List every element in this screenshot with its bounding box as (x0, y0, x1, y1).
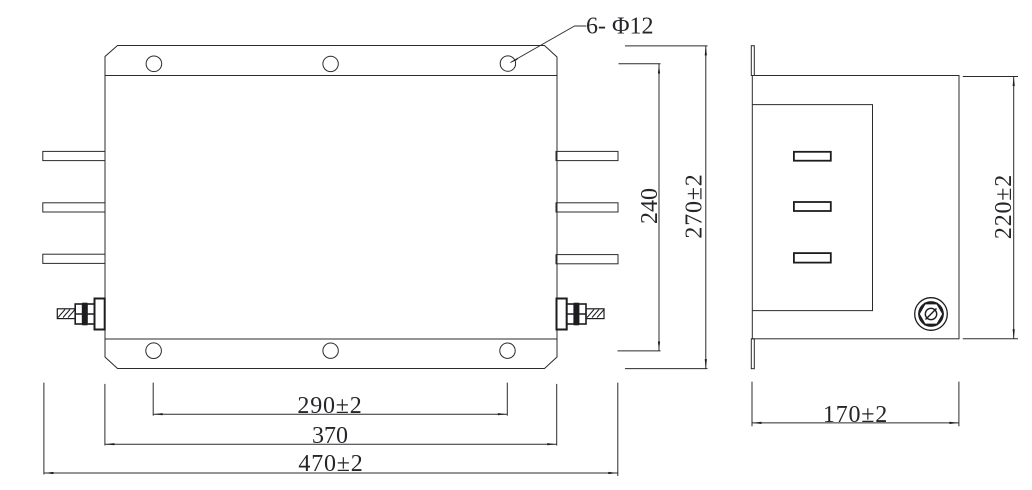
stud center line (75, 313, 95, 315)
dimension 240 arrows (658, 64, 660, 74)
stud washer block inner (567, 304, 575, 324)
leader line for hole callout (511, 26, 587, 63)
dimension 270 arrows (705, 46, 707, 56)
top view body top edge (105, 75, 557, 77)
dimension 370 (105, 384, 557, 446)
right earth stud assembly (557, 299, 605, 330)
side view flange plate bottom (751, 339, 754, 369)
mounting hole bottom-middle (323, 343, 338, 358)
left terminal 1 (43, 151, 105, 160)
stud threaded rod (57, 309, 75, 319)
mounting hole top-middle (323, 56, 338, 71)
right terminal 1 (556, 151, 618, 160)
left terminal 2 (43, 203, 105, 212)
mounting hole bottom-left (146, 343, 162, 359)
dimension 240 line (618, 64, 661, 351)
svg-text:6- Φ12: 6- Φ12 (586, 14, 654, 40)
stud nut (75, 304, 82, 324)
stud black washer (574, 303, 578, 325)
leader arrowhead (510, 58, 518, 64)
mounting hole top-right (500, 56, 515, 71)
svg-text:170±2: 170±2 (823, 402, 888, 428)
side view flange plate top (751, 46, 959, 369)
dimension 170+-2 (752, 382, 959, 427)
top view body bottom edge (105, 338, 557, 340)
dimension 470+-2 (44, 383, 618, 476)
stud end slash (926, 309, 937, 320)
svg-text:270±2: 270±2 (682, 173, 708, 238)
right terminal 2 (556, 203, 618, 212)
dimension 170 arrows (752, 422, 762, 424)
svg-text:220±2: 220±2 (991, 174, 1017, 239)
dimension 270+-2 line (625, 46, 708, 369)
side view stud end: washer circle (915, 298, 948, 331)
side view slot 1 (794, 152, 831, 263)
svg-text:290±2: 290±2 (297, 393, 362, 419)
stud rod hatching (58, 310, 75, 318)
stud washer block inner (87, 304, 95, 324)
dimension 290 arrows (153, 413, 163, 415)
stud boss (95, 299, 105, 330)
svg-text:470±2: 470±2 (298, 451, 363, 477)
left earth stud assembly (57, 299, 104, 330)
top view flange outline (chamfered plate) (105, 46, 557, 369)
mounting hole bottom-right (500, 343, 515, 358)
mounting hole top-left (146, 56, 162, 72)
dimension 220 arrows (1013, 77, 1015, 87)
stud black washer (83, 303, 87, 325)
stud center line (567, 313, 586, 315)
svg-text:370: 370 (312, 423, 348, 449)
stud boss (557, 299, 567, 330)
stud end thread circle (925, 308, 936, 319)
side view slot 2 (794, 202, 831, 211)
side view body (752, 76, 959, 339)
stud end nut circle (919, 302, 943, 326)
stud threaded rod (586, 309, 604, 319)
dimension 470 arrows (44, 472, 54, 474)
stud nut (579, 304, 586, 324)
stud end hexagon (919, 304, 943, 325)
dimension 370 arrows (105, 443, 115, 445)
side view slot 3 (794, 253, 831, 263)
dimension 290+-2 (153, 383, 507, 416)
dimension 220+-2 (963, 77, 1018, 339)
svg-text:240: 240 (637, 188, 663, 224)
stud rod hatching (587, 310, 604, 318)
right terminal 3 (556, 255, 618, 264)
left terminal 3 (43, 254, 105, 263)
side view terminal cover (752, 105, 872, 311)
